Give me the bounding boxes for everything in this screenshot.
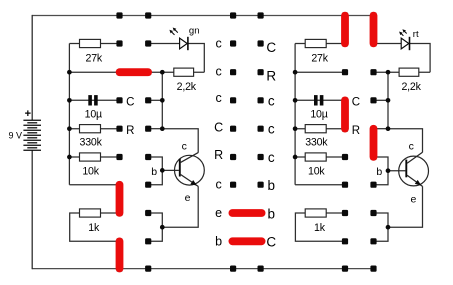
wire: 10k R9 row — [295, 156, 345, 158]
wire: collector link Q1 — [162, 129, 198, 153]
svg-text:330k: 330k — [305, 137, 328, 149]
svg-text:c: c — [182, 141, 187, 153]
pad C7 — [230, 182, 236, 188]
svg-text:c: c — [215, 37, 221, 51]
wire: 1k R10 loop — [295, 213, 345, 241]
svg-text:c: c — [409, 141, 414, 153]
pad E9 — [342, 238, 348, 244]
pad A5 — [116, 126, 122, 132]
wire: left bus bottom link — [69, 184, 119, 186]
svg-text:10k: 10k — [82, 165, 99, 177]
svg-text:C: C — [266, 235, 276, 250]
node left bus row6 — [67, 155, 72, 160]
pad A10 — [116, 266, 122, 272]
pad A6 — [116, 154, 122, 160]
svg-text:1k: 1k — [314, 222, 326, 234]
resistor R2 2.2k — [174, 68, 194, 76]
svg-text:C: C — [214, 121, 223, 135]
svg-text:C: C — [266, 40, 276, 55]
svg-text:330k: 330k — [80, 137, 103, 149]
svg-text:e: e — [215, 206, 222, 220]
node right bus row4 — [293, 98, 298, 103]
svg-text:1k: 1k — [88, 222, 100, 234]
wire: base stub Q1 — [162, 169, 179, 171]
svg-text:R: R — [266, 68, 276, 83]
svg-text:c: c — [215, 178, 221, 192]
pad D7 — [258, 182, 264, 188]
pad D9 — [258, 238, 264, 244]
svg-text:27k: 27k — [86, 53, 103, 65]
jumper wire red right col1 rows4-5 — [341, 97, 349, 133]
svg-text:b: b — [376, 166, 382, 178]
wire: pad to node row 5 — [148, 128, 162, 130]
jumper wire red left col rows9-10 — [116, 238, 124, 273]
pad A4 — [116, 97, 122, 103]
transistor Q2 — [399, 152, 429, 186]
wire: 330k R3 row — [69, 128, 119, 130]
wire: supply to pad row 3 right — [295, 71, 345, 73]
wire: 2.2k R2 row — [148, 71, 204, 73]
node base Q2 — [386, 168, 391, 173]
pad F7 — [370, 182, 376, 188]
wire: left vertical bus — [68, 44, 70, 185]
pad E4 — [342, 97, 348, 103]
svg-text:C: C — [126, 97, 134, 109]
jumper wire red right col1 rows1-2 — [341, 12, 349, 48]
wire: emitter stub Q2 — [388, 186, 423, 227]
LED D2 red — [401, 38, 409, 49]
wire: supply to pad row 3 — [69, 71, 119, 73]
pad C6 — [230, 154, 236, 160]
pad D2 — [258, 40, 264, 46]
jumper wire red right col2 rows5-6 — [370, 125, 378, 161]
wire: pad to node row 4 — [148, 99, 162, 101]
svg-text:c: c — [268, 122, 275, 137]
wire: LED D2 anode row — [374, 44, 431, 73]
pad C9 — [230, 238, 236, 244]
svg-text:gn: gn — [189, 25, 200, 36]
pad B6 — [145, 154, 151, 160]
battery BAT1 9V — [23, 120, 41, 150]
pad E6 — [342, 154, 348, 160]
pad D4 — [258, 97, 264, 103]
svg-text:2,2k: 2,2k — [401, 81, 421, 93]
pad D3 — [258, 69, 264, 75]
resistor R5 1k — [80, 209, 101, 217]
pad A8 — [116, 210, 122, 216]
wire: emitter stub Q1 — [162, 186, 198, 227]
pad C3 — [230, 69, 236, 75]
node mid-right row4 — [386, 98, 391, 103]
resistor R10 1k — [305, 209, 326, 217]
LED D1 green — [180, 38, 188, 49]
pad F5 — [370, 126, 376, 132]
node mid-right row3 — [386, 70, 391, 75]
svg-text:10µ: 10µ — [310, 108, 327, 120]
LED D1 emission arrows — [169, 28, 177, 35]
pad E1 — [342, 12, 348, 18]
node left bus row3 — [67, 70, 72, 75]
node right bus row6 — [293, 155, 298, 160]
pad F10 — [370, 266, 376, 272]
pad B7 — [145, 182, 151, 188]
capacitor C1 10u — [88, 95, 97, 105]
svg-text:b: b — [215, 235, 222, 249]
svg-text:+: + — [25, 108, 31, 120]
svg-text:b: b — [151, 166, 157, 178]
wire: base stub Q2 — [388, 170, 405, 172]
wire: LED D1 anode row — [148, 44, 204, 73]
pad F4 — [370, 97, 376, 103]
wire: 1k R5 loop — [70, 213, 120, 241]
svg-text:C: C — [352, 97, 360, 109]
resistor R1 27k — [80, 39, 101, 47]
jumper wire red mid row8 — [229, 209, 266, 217]
pad A7 — [116, 182, 122, 188]
svg-text:27k: 27k — [311, 53, 328, 65]
pad E7 — [342, 182, 348, 188]
pad B4 — [145, 97, 151, 103]
jumper wire red right col2 rows1-2 — [370, 12, 378, 48]
svg-text:R: R — [126, 125, 134, 137]
pad C2 — [230, 40, 236, 46]
resistor R8 330k — [305, 125, 326, 133]
wire: right vertical bus — [294, 44, 296, 185]
svg-text:e: e — [185, 192, 191, 204]
transistor Q1 — [175, 153, 205, 187]
wire: right bus bottom link — [295, 184, 345, 186]
wire: 27k R6 row — [295, 43, 345, 45]
pad C1 — [230, 12, 236, 18]
svg-text:c: c — [215, 65, 221, 79]
node left bus row4 — [67, 98, 72, 103]
svg-text:c: c — [215, 91, 221, 105]
svg-text:c: c — [268, 150, 275, 165]
pad D1 — [258, 12, 264, 18]
wire: battery negative lead — [31, 150, 33, 269]
pad F6 — [370, 154, 376, 160]
resistor R6 27k — [305, 39, 326, 47]
svg-text:R: R — [352, 125, 360, 137]
pad E8 — [342, 210, 348, 216]
svg-text:e: e — [410, 193, 416, 205]
resistor R3 330k — [80, 125, 101, 133]
pad B1 — [145, 12, 151, 18]
wire: pad to node row 4 right — [374, 99, 389, 101]
resistor R4 10k — [80, 153, 101, 161]
wire: 2.2k R7 row — [374, 71, 431, 73]
pad B8 — [145, 210, 151, 216]
wire: battery positive lead — [31, 15, 33, 120]
svg-text:9 V: 9 V — [8, 131, 22, 141]
svg-text:rt: rt — [413, 29, 419, 40]
resistor R7 2.2k — [399, 68, 419, 76]
capacitor C2 10u — [314, 95, 323, 105]
jumper wire red mid row9 — [229, 237, 266, 245]
pad A3 — [116, 69, 122, 75]
wire: emitter pads link Q2 — [374, 213, 389, 241]
pad B2 — [145, 40, 151, 46]
pad A9 — [116, 238, 122, 244]
node emitter Q2 — [386, 225, 391, 230]
wire: pad to node row 5 right — [374, 128, 389, 130]
svg-text:10µ: 10µ — [85, 108, 102, 120]
wire: emitter pads link Q1 — [148, 213, 162, 241]
node right bus row5 — [293, 126, 298, 131]
pad C10 — [230, 266, 236, 272]
svg-text:2,2k: 2,2k — [177, 81, 197, 93]
jumper wire red left col rows7-8 — [116, 181, 124, 217]
node left bus row5 — [67, 126, 72, 131]
pad E3 — [342, 69, 348, 75]
pad E5 — [342, 126, 348, 132]
svg-text:b: b — [268, 207, 276, 222]
pad B9 — [145, 238, 151, 244]
pad E10 — [342, 266, 348, 272]
wire: 330k R8 row — [295, 128, 345, 130]
wire: base link Q1 — [148, 157, 162, 185]
pad B5 — [145, 126, 151, 132]
wire: bottom ground bus — [32, 268, 373, 270]
node mid-left row5 — [160, 126, 165, 131]
pad D5 — [258, 126, 264, 132]
pad F3 — [370, 69, 376, 75]
pad B10 — [145, 266, 151, 272]
pad F2 — [370, 40, 376, 46]
pad D10 — [258, 266, 264, 272]
pad C5 — [230, 126, 236, 132]
svg-text:b: b — [268, 178, 276, 193]
node mid-left row3 — [160, 70, 165, 75]
node mid-left row4 — [160, 98, 165, 103]
pad F9 — [370, 238, 376, 244]
node mid-right row5 — [386, 126, 391, 131]
wire: mid vertical node right — [387, 72, 389, 129]
svg-text:c: c — [268, 94, 275, 109]
pad C4 — [230, 97, 236, 103]
wire: top supply bus — [32, 15, 373, 17]
node base Q1 — [160, 168, 165, 173]
pad D8 — [258, 210, 264, 216]
pad F1 — [370, 12, 376, 18]
node right bus row3 — [293, 70, 298, 75]
svg-text:R: R — [214, 148, 223, 162]
wire: base link Q2 — [374, 157, 389, 185]
pad F8 — [370, 210, 376, 216]
pad B3 — [145, 69, 151, 75]
wire: capacitor C1 row — [69, 99, 119, 101]
LED D2 emission arrows — [399, 29, 407, 36]
pad E2 — [342, 40, 348, 46]
wire: mid vertical node left — [161, 72, 163, 129]
jumper wire red row3 left — [116, 68, 152, 76]
wire: collector link Q2 — [388, 129, 423, 153]
wire: 10k R4 row — [69, 156, 119, 158]
pad A2 — [116, 40, 122, 46]
pad A1 — [116, 12, 122, 18]
resistor R9 10k — [305, 153, 326, 161]
wire: capacitor C2 row — [295, 99, 345, 101]
pad C8 — [230, 210, 236, 216]
svg-text:10k: 10k — [308, 165, 325, 177]
node emitter Q1 — [160, 225, 165, 230]
pad D6 — [258, 154, 264, 160]
wire: 27k R1 row — [69, 43, 119, 45]
